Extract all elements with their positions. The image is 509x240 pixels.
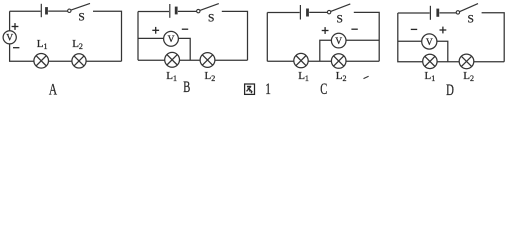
wire B bottom-left segment: [138, 59, 165, 61]
svg-text:D: D: [446, 82, 454, 99]
wire D voltmeter branch left: [398, 40, 422, 42]
wire A top-left segment: [10, 10, 41, 12]
wire D voltmeter branch right with drop to node between lamps: [437, 41, 448, 61]
wire C voltmeter branch from node between lamps: [320, 40, 332, 61]
figure caption "tu" (Chinese char for figure), drawn as strokes: [245, 84, 255, 94]
plus polarity mark A voltmeter +: [12, 23, 19, 30]
wire A bottom-right segment: [86, 60, 121, 62]
plus polarity mark D voltmeter +: [440, 27, 447, 34]
lamp L2 (circuit C): [331, 54, 346, 69]
svg-text:L1: L1: [166, 70, 177, 83]
lamp L2 (circuit B): [200, 53, 215, 68]
switch S (circuit B): [197, 4, 219, 25]
wire C top-left segment: [267, 12, 299, 14]
wire C switch to top-right corner and right side: [354, 12, 379, 61]
plus polarity mark B voltmeter +: [152, 27, 159, 34]
svg-text:L2: L2: [205, 70, 216, 83]
svg-text:L2: L2: [463, 70, 474, 83]
wire A left side above voltmeter: [9, 11, 11, 30]
lamp L1 (circuit C): [294, 53, 308, 67]
minus polarity mark A voltmeter -: [13, 47, 19, 49]
wire D bottom-left segment: [398, 13, 423, 62]
wire B left side: [137, 12, 139, 61]
battery BT-C: [300, 5, 307, 20]
svg-text:L1: L1: [425, 70, 436, 83]
wire C battery to switch: [309, 11, 327, 13]
wire A switch to top-right corner and right side: [93, 11, 122, 61]
voltmeter V (circuit A): [3, 31, 16, 44]
minus polarity mark C voltmeter -: [351, 28, 357, 30]
wire B battery to switch: [178, 10, 197, 12]
svg-text:V: V: [335, 37, 342, 47]
lamp L1 (circuit D): [423, 54, 437, 68]
wire B between lamps: [180, 59, 201, 61]
svg-text:V: V: [6, 34, 13, 44]
wire D top-left segment: [398, 12, 430, 14]
svg-text:L1: L1: [37, 38, 48, 51]
switch S (circuit A): [68, 3, 90, 23]
wire C voltmeter branch right: [346, 39, 379, 41]
switch S (circuit C): [327, 4, 350, 26]
battery BT-B: [170, 4, 176, 18]
switch S (circuit D): [456, 4, 478, 26]
svg-text:V: V: [426, 38, 433, 48]
lamp L1 (circuit A): [34, 54, 49, 69]
voltmeter V (circuit C): [331, 33, 346, 48]
lamp L2 (circuit A): [72, 54, 86, 68]
wire C bottom-right segment: [346, 60, 379, 62]
wire B switch to top-right corner and right side: [222, 11, 248, 60]
wire C between lamps: [308, 60, 331, 62]
battery BT-D: [430, 6, 437, 20]
wire B top-left segment: [138, 11, 169, 13]
svg-text:L2: L2: [72, 38, 83, 51]
stray pen mark right of C labels: [364, 76, 369, 78]
wire B voltmeter branch left: [138, 37, 164, 39]
voltmeter V (circuit D): [422, 34, 437, 49]
voltmeter V (circuit B): [164, 31, 179, 46]
circuit D group: [398, 4, 504, 99]
wire C left side: [266, 13, 268, 62]
svg-text:S: S: [468, 13, 474, 25]
wire A battery to switch: [48, 10, 67, 12]
battery BT-A: [41, 4, 46, 17]
minus polarity mark B voltmeter -: [182, 28, 188, 30]
wire D switch to top-right corner and right side: [482, 13, 505, 62]
wire B voltmeter branch right with drop to node between lamps: [178, 38, 190, 60]
minus polarity mark D voltmeter -: [411, 28, 417, 30]
svg-text:A: A: [49, 81, 58, 98]
circuit C group: [267, 4, 379, 98]
wire A between lamps: [48, 60, 72, 62]
wire C bottom-left segment: [267, 60, 294, 62]
svg-text:S: S: [337, 13, 343, 25]
lamp L2 (circuit D): [459, 54, 474, 69]
wire B bottom-right segment: [215, 59, 248, 61]
svg-text:S: S: [208, 12, 214, 24]
svg-text:L1: L1: [298, 70, 309, 83]
svg-text:B: B: [183, 79, 190, 96]
wire D battery to switch: [440, 12, 457, 14]
plus polarity mark C voltmeter +: [322, 27, 329, 34]
lamp L1 (circuit B): [165, 52, 180, 67]
wire D between lamps: [437, 61, 459, 63]
svg-text:L2: L2: [336, 70, 347, 83]
wire D bottom-right segment: [474, 61, 504, 63]
circuit B group: [138, 4, 248, 97]
svg-text:C: C: [320, 81, 327, 98]
svg-text:S: S: [78, 12, 84, 24]
wire A bottom-left segment: [10, 44, 34, 61]
circuit A group: [3, 3, 121, 98]
svg-text:V: V: [168, 35, 175, 45]
svg-text:1: 1: [265, 81, 271, 98]
